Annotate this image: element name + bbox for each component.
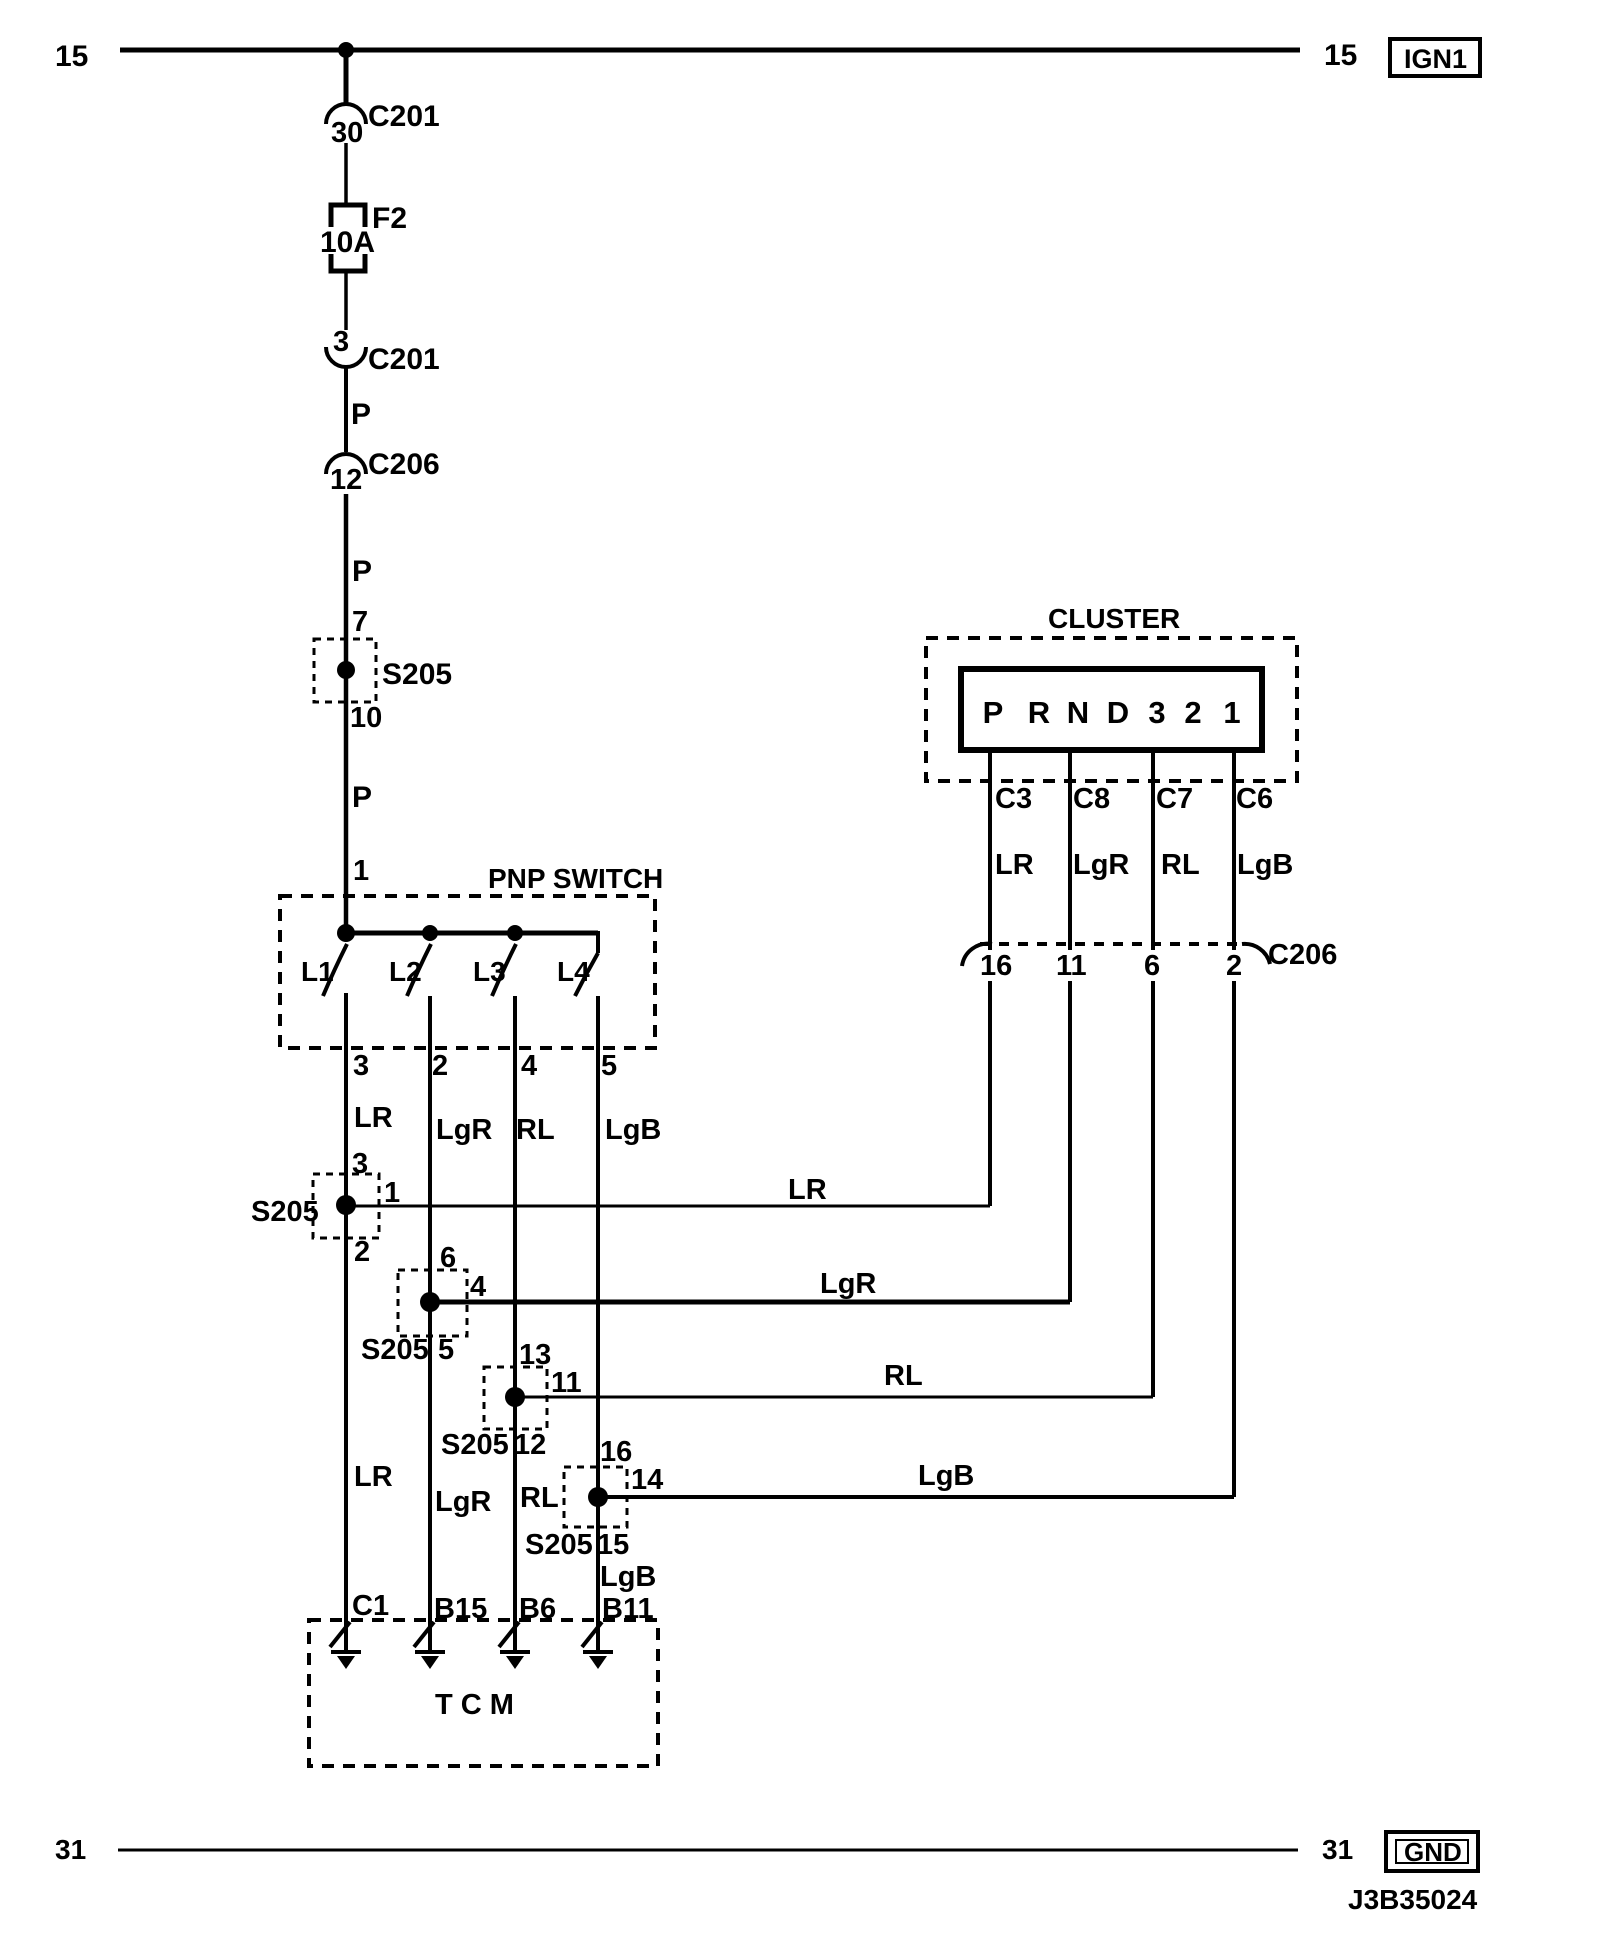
svg-text:10A: 10A [320, 226, 375, 259]
svg-text:S205: S205 [251, 1196, 319, 1228]
wire C201-3 to C206-12 [344, 366, 348, 452]
svg-text:LR: LR [995, 849, 1034, 881]
wire RL horizontal [515, 1396, 1153, 1399]
svg-text:LR: LR [788, 1174, 827, 1206]
svg-text:IGN1: IGN1 [1404, 44, 1467, 74]
wire cluster column 6 [1151, 981, 1155, 1397]
switch L3 [492, 944, 516, 996]
svg-text:31: 31 [55, 1834, 86, 1865]
ground at C1 [330, 1622, 350, 1647]
wire column 1 (pin 3, LR) [344, 993, 348, 1652]
ground at B15 [414, 1622, 434, 1647]
svg-text:C6: C6 [1236, 783, 1273, 815]
wire cluster column 2 [1232, 981, 1236, 1497]
svg-text:1: 1 [353, 855, 369, 887]
svg-text:LR: LR [354, 1102, 393, 1134]
bus rail 15 (IGN1) [120, 48, 1300, 53]
splice S205 (LgB) [564, 1467, 627, 1527]
svg-text:C3: C3 [995, 783, 1032, 815]
svg-text:F2: F2 [372, 202, 407, 235]
splice S205 (top) [314, 639, 376, 702]
svg-text:4: 4 [521, 1050, 537, 1082]
svg-text:P: P [352, 781, 372, 814]
svg-text:5: 5 [601, 1050, 617, 1082]
wire cluster D to C206-2 [1232, 750, 1236, 950]
svg-text:L3: L3 [473, 956, 506, 987]
PRND321 indicator box [961, 669, 1262, 750]
svg-text:1: 1 [1223, 695, 1240, 730]
svg-text:12: 12 [514, 1429, 546, 1461]
bus inside PNP switch [346, 931, 598, 936]
svg-text:10: 10 [350, 702, 382, 734]
svg-text:GND: GND [1404, 1837, 1462, 1867]
svg-text:6: 6 [1144, 950, 1160, 982]
fuse F2 10A [331, 205, 365, 271]
svg-text:LgR: LgR [435, 1486, 491, 1518]
svg-text:11: 11 [551, 1367, 582, 1399]
connector C206 dashed [980, 942, 1246, 946]
svg-text:L2: L2 [389, 956, 422, 987]
svg-text:31: 31 [1322, 1834, 1353, 1865]
svg-text:LgR: LgR [436, 1114, 492, 1146]
svg-text:C206: C206 [1268, 939, 1337, 971]
wire column 4 (pin 5, LgB) [596, 996, 600, 1652]
svg-text:12: 12 [330, 464, 362, 496]
svg-text:P: P [983, 695, 1004, 730]
switch L4 [575, 953, 598, 996]
node L3 [507, 925, 523, 941]
splice S205 (LgR) [398, 1270, 467, 1336]
wire cluster column 11 [1068, 981, 1072, 1302]
svg-text:T C M: T C M [435, 1689, 514, 1721]
TCM box [309, 1620, 658, 1766]
wire LR horizontal [346, 1205, 990, 1208]
svg-text:RL: RL [1161, 849, 1200, 881]
wire cluster P to C206-16 [988, 750, 992, 950]
splice S205 (RL) [484, 1367, 547, 1429]
svg-text:16: 16 [600, 1436, 632, 1468]
wire cluster N to C206-6 [1151, 750, 1155, 950]
switch L1 [323, 944, 347, 996]
ground at B11 [582, 1622, 602, 1647]
svg-text:5: 5 [438, 1334, 454, 1366]
svg-text:15: 15 [1324, 39, 1357, 72]
svg-text:N: N [1067, 695, 1089, 730]
svg-text:C8: C8 [1073, 783, 1110, 815]
svg-text:2: 2 [1226, 950, 1242, 982]
svg-text:RL: RL [520, 1482, 559, 1514]
svg-text:C7: C7 [1156, 783, 1193, 815]
svg-text:15: 15 [55, 40, 88, 73]
svg-text:D: D [1107, 695, 1129, 730]
wire LgB horizontal [598, 1495, 1234, 1499]
svg-text:LgB: LgB [600, 1561, 656, 1593]
svg-text:RL: RL [516, 1114, 555, 1146]
svg-text:S205: S205 [361, 1334, 429, 1366]
svg-text:1: 1 [384, 1177, 400, 1209]
svg-text:LgR: LgR [820, 1268, 876, 1300]
ground at B6 [499, 1622, 519, 1647]
svg-text:16: 16 [980, 950, 1012, 982]
wire LgR horizontal [430, 1300, 1070, 1305]
node junction on rail 15 [338, 42, 354, 58]
svg-text:LgB: LgB [605, 1114, 661, 1146]
svg-text:PNP SWITCH: PNP SWITCH [488, 863, 663, 894]
wire cluster R to C206-11 [1068, 750, 1072, 950]
wire from rail to connector C201-30 [344, 50, 349, 106]
svg-text:C206: C206 [368, 448, 440, 481]
svg-text:2: 2 [354, 1236, 370, 1268]
svg-text:LgB: LgB [918, 1460, 974, 1492]
wire column 3 (pin 4, RL) [513, 996, 517, 1652]
svg-text:2: 2 [1184, 695, 1201, 730]
svg-text:14: 14 [631, 1464, 663, 1496]
CLUSTER box [926, 638, 1297, 781]
svg-text:15: 15 [597, 1529, 629, 1561]
svg-text:3: 3 [333, 326, 349, 358]
wire cluster column 16 [988, 981, 992, 1206]
svg-text:3: 3 [1148, 695, 1165, 730]
svg-text:2: 2 [432, 1050, 448, 1082]
connector C206 pin 12 [326, 454, 366, 474]
switch L2 [407, 944, 431, 996]
bus rail 31 (GND) [118, 1849, 1298, 1852]
svg-text:RL: RL [884, 1360, 923, 1392]
svg-text:4: 4 [470, 1271, 486, 1303]
svg-text:S205: S205 [382, 658, 452, 691]
svg-text:S205: S205 [525, 1529, 593, 1561]
svg-text:J3B35024: J3B35024 [1348, 1884, 1478, 1915]
splice S205 (LR) [313, 1174, 379, 1238]
svg-text:7: 7 [352, 606, 368, 638]
svg-text:LgR: LgR [1073, 849, 1129, 881]
node L2 [422, 925, 438, 941]
svg-text:R: R [1028, 695, 1050, 730]
wire column 2 (pin 2, LgR) [428, 996, 432, 1652]
svg-text:11: 11 [1056, 950, 1087, 982]
svg-text:L1: L1 [301, 956, 334, 987]
svg-text:L4: L4 [557, 956, 590, 987]
GND flag [1386, 1832, 1478, 1871]
wire C206-12 to PNP switch [344, 494, 349, 935]
svg-text:P: P [351, 398, 371, 431]
svg-text:S205: S205 [441, 1429, 509, 1461]
wire out of fuse [344, 269, 348, 330]
wire corner to L4 [596, 931, 600, 953]
svg-text:C1: C1 [352, 1590, 389, 1622]
svg-text:P: P [352, 555, 372, 588]
svg-text:C201: C201 [368, 343, 440, 376]
IGN1 flag [1390, 39, 1480, 76]
svg-text:C201: C201 [368, 100, 440, 133]
wire into fuse [344, 143, 348, 207]
connector C201 pin 30 [326, 104, 366, 124]
node L1 [337, 924, 355, 942]
svg-text:LgB: LgB [1237, 849, 1293, 881]
svg-text:3: 3 [353, 1050, 369, 1082]
svg-text:LR: LR [354, 1461, 393, 1493]
svg-text:CLUSTER: CLUSTER [1048, 603, 1180, 634]
